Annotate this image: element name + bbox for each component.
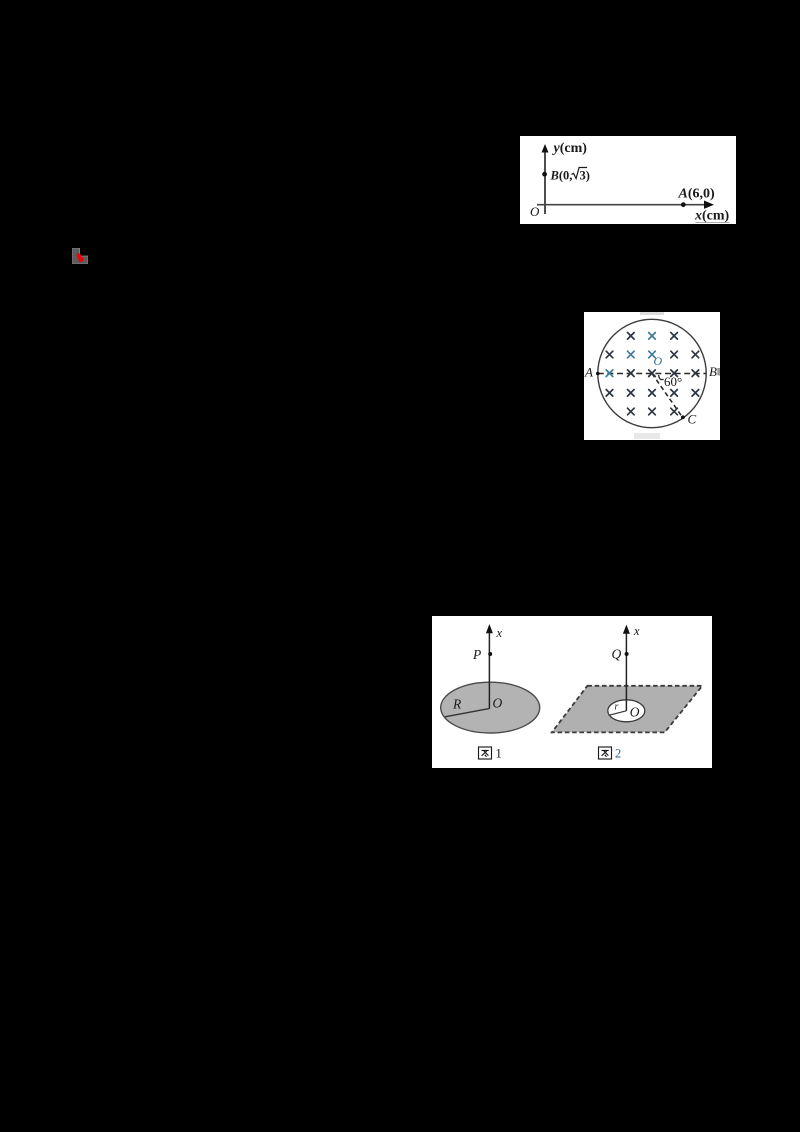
radius r line in hole <box>609 711 627 716</box>
row 4 <box>606 390 613 397</box>
gray L shape <box>72 248 88 264</box>
svg-text:A: A <box>584 365 593 380</box>
svg-text:60°: 60° <box>664 374 682 389</box>
svg-text:O: O <box>493 696 503 711</box>
svg-text:Q: Q <box>612 647 622 662</box>
x-axis fig1 <box>486 624 493 709</box>
dot at C <box>681 415 685 419</box>
point Q dot <box>625 652 629 656</box>
x-axis <box>537 201 714 209</box>
svg-text:x: x <box>633 624 640 638</box>
y-axis <box>542 144 549 214</box>
row 2 <box>606 351 613 358</box>
svg-text:R: R <box>452 697 462 712</box>
svg-text:B(0,: B(0, <box>550 169 573 183</box>
svg-text:3): 3) <box>580 169 590 183</box>
plane parallelogram fig2 <box>552 686 703 733</box>
figure 1: coordinate system with A(6,0) and B(0,√3) <box>520 136 736 224</box>
radius R line <box>445 709 489 717</box>
figure 3: disk (图1) and plane with hole (图2) <box>432 616 712 768</box>
row 5 <box>628 408 635 415</box>
top smudge <box>640 312 664 315</box>
svg-text:C: C <box>688 412 697 427</box>
svg-text:r: r <box>615 702 619 713</box>
point P dot <box>488 652 492 656</box>
red blob <box>76 253 81 258</box>
svg-text:2: 2 <box>615 747 621 761</box>
point A dot <box>681 202 686 207</box>
caption 图1 <box>479 747 502 761</box>
row 1 <box>628 333 635 340</box>
label B(0,√3) <box>550 168 590 183</box>
svg-text:B: B <box>709 364 717 379</box>
disk ellipse fig1 <box>441 682 540 733</box>
svg-text:x: x <box>496 626 503 640</box>
svg-text:P: P <box>472 647 481 662</box>
hole ellipse <box>608 700 645 722</box>
gray artifact right of B <box>717 368 720 376</box>
figure 2: circular magnetic field region with x marks <box>584 312 720 440</box>
point B dot <box>542 172 547 177</box>
svg-text:1: 1 <box>496 747 502 761</box>
small page icon with red marker <box>72 248 88 264</box>
svg-text:y(cm): y(cm) <box>552 141 588 156</box>
svg-text:x(cm): x(cm) <box>694 209 730 224</box>
dashed diameter AB <box>598 373 706 375</box>
blue tinted x marks (scan colour) <box>606 333 655 377</box>
underline under x(cm) <box>696 222 730 224</box>
svg-text:O: O <box>630 705 640 720</box>
dot at A intersection <box>596 372 600 376</box>
row 3 on diameter <box>628 370 635 377</box>
svg-text:A(6,0): A(6,0) <box>678 187 716 202</box>
svg-text:O: O <box>530 204 540 219</box>
dashed radius OC <box>652 374 683 418</box>
angle arc 60 degrees <box>659 375 664 380</box>
x-axis fig2 <box>623 625 630 711</box>
svg-text:O: O <box>654 354 663 368</box>
caption 图2 <box>599 747 622 761</box>
bottom smudge <box>634 433 660 439</box>
field boundary circle O <box>598 319 706 427</box>
x marks grid <box>606 333 699 415</box>
